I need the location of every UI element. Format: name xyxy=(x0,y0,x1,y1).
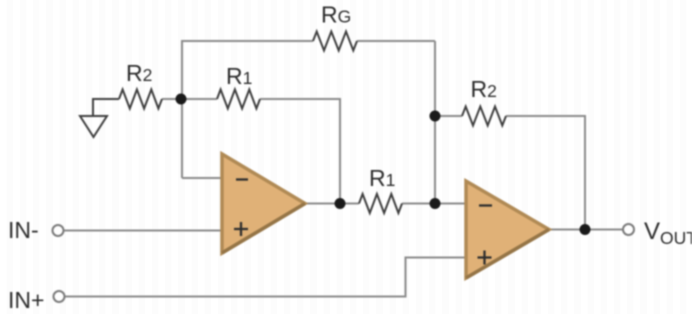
terminal VOUT xyxy=(623,224,634,235)
node A (R2/R1/RG junction) xyxy=(176,94,187,105)
op-amp U1 xyxy=(222,154,305,253)
node B top (RG/R2 junction) xyxy=(430,111,441,122)
wire IN+ to op2 plus xyxy=(65,258,467,297)
wire RG left segment xyxy=(182,41,313,178)
node output junction xyxy=(580,224,591,235)
resistor R1 (left) xyxy=(217,90,260,109)
svg-text:R2: R2 xyxy=(126,60,152,86)
svg-text:R1: R1 xyxy=(369,165,395,191)
terminal IN- xyxy=(53,225,64,236)
wire R1 mid to op2 minus xyxy=(402,203,466,205)
ground xyxy=(93,99,119,116)
node op1 output xyxy=(335,198,346,209)
wire R1 to op1 output loop xyxy=(260,99,340,204)
wire op1 minus input xyxy=(182,177,222,179)
terminal IN+ xyxy=(54,291,65,302)
resistor R1 (mid) xyxy=(359,194,402,213)
op-amp U2 inverting input (-) mark xyxy=(479,204,492,206)
op-amp U2 xyxy=(466,181,549,278)
wire op2 output to Vout xyxy=(549,229,623,231)
op-amp U1 inverting input (-) mark xyxy=(236,178,248,180)
wire op1 output to R1 mid xyxy=(305,203,359,205)
wire IN- to op1 plus xyxy=(64,230,223,232)
wire RG right segment xyxy=(357,40,435,42)
op-amp U2 non-inverting input (+) mark xyxy=(478,251,492,265)
resistor R2 (left) xyxy=(119,90,162,109)
wire node A to R1 left xyxy=(162,98,217,100)
op-amp U1 non-inverting input (+) mark xyxy=(234,222,248,236)
wire R2 right to output xyxy=(506,116,585,230)
svg-text:IN-: IN- xyxy=(8,217,39,243)
wire vertical x435 xyxy=(434,41,436,204)
svg-text:IN+: IN+ xyxy=(8,287,44,313)
svg-text:VOUT: VOUT xyxy=(644,218,692,248)
wire top loop horizontal xyxy=(64,41,623,297)
resistor RG xyxy=(313,32,357,51)
node B bottom (R1/op2 minus) xyxy=(430,198,441,209)
svg-text:R1: R1 xyxy=(226,63,252,89)
resistor R2 (right) xyxy=(462,107,506,126)
svg-text:R2: R2 xyxy=(471,76,497,102)
wire node B to R2 right xyxy=(435,115,462,117)
svg-text:RG: RG xyxy=(321,2,351,28)
